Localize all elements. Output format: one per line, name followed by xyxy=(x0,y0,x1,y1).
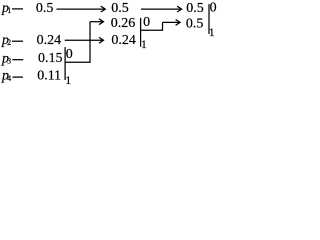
wire arrow merged 0.26 into stage2 xyxy=(90,21,103,23)
svg-text:0: 0 xyxy=(66,47,73,62)
svg-text:0.5: 0.5 xyxy=(36,1,54,16)
wire arrow merged 0.5 into stage3 xyxy=(163,21,180,23)
tie dash after p1 xyxy=(12,8,23,10)
svg-text:0: 0 xyxy=(210,0,217,15)
wire arrow 0.24 stage1 to stage2 xyxy=(65,39,103,41)
wire arrow 0.5 stage1 to stage2 xyxy=(57,8,105,10)
svg-text:0.24: 0.24 xyxy=(111,33,135,48)
tie dash after p4 xyxy=(13,76,24,78)
svg-text:0.15: 0.15 xyxy=(38,51,63,66)
svg-text:2: 2 xyxy=(7,38,11,47)
svg-text:1: 1 xyxy=(209,27,215,39)
merge bracket p3/p4 xyxy=(64,47,66,80)
merge bracket 0.26/0.24 xyxy=(140,18,142,47)
svg-text:1: 1 xyxy=(141,39,147,51)
wire connector 0.26/0.24 merge out xyxy=(141,22,163,30)
svg-text:0.11: 0.11 xyxy=(37,68,61,83)
svg-text:3: 3 xyxy=(7,57,11,66)
svg-text:0.5: 0.5 xyxy=(186,1,204,16)
svg-text:4: 4 xyxy=(7,74,11,83)
svg-text:0.24: 0.24 xyxy=(37,33,62,48)
wire connector p3/p4 merge out xyxy=(65,22,90,63)
svg-text:1: 1 xyxy=(65,75,71,87)
tie dash after p2 xyxy=(12,40,23,42)
tie dash after p3 xyxy=(12,59,23,61)
svg-text:0: 0 xyxy=(143,15,150,30)
wire arrow 0.5 stage2 to stage3 xyxy=(141,8,181,10)
merge bracket final 0.5/0.5 xyxy=(208,4,210,34)
svg-text:0.26: 0.26 xyxy=(111,16,136,31)
svg-text:0.5: 0.5 xyxy=(111,1,129,16)
svg-text:0.5: 0.5 xyxy=(186,17,204,32)
svg-text:1: 1 xyxy=(7,6,11,15)
